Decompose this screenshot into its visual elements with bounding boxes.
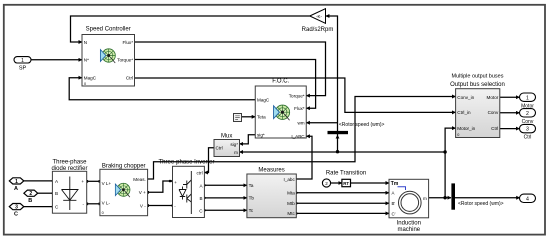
svg-text:Teta: Teta [257,114,266,119]
svg-text:A: A [392,191,395,196]
svg-text:Measures: Measures [258,168,284,174]
svg-text:Rad/s2Rpm: Rad/s2Rpm [302,27,334,33]
svg-text:2: 2 [526,111,529,117]
svg-text:+: + [81,179,84,184]
svg-text:I_ABC: I_ABC [291,134,305,139]
svg-text:Motor: Motor [521,103,534,109]
svg-text:A: A [14,186,18,192]
svg-text:Mtc: Mtc [287,211,295,216]
svg-text:ctrl: ctrl [196,171,202,176]
svg-text:SP: SP [19,66,27,72]
svg-text:Ctrl: Ctrl [126,76,133,81]
svg-text:V L-: V L- [102,201,111,206]
svg-text:B: B [28,198,32,204]
svg-text:Ctrl: Ctrl [524,135,532,141]
svg-text:0: 0 [457,133,459,137]
svg-text:Three-phase: Three-phase [52,160,87,166]
svg-text:sig*: sig* [257,133,265,138]
svg-text:1: 1 [21,58,24,64]
svg-text:N*: N* [84,57,89,62]
svg-text:2: 2 [325,181,328,186]
svg-text:MagC: MagC [257,98,270,103]
svg-text:B: B [200,196,203,201]
svg-text:1: 1 [526,95,529,101]
svg-text:sig*: sig* [230,142,238,147]
svg-text:Conv: Conv [522,119,534,125]
svg-text:F.O.C.: F.O.C. [272,79,289,85]
svg-text:1: 1 [15,179,18,185]
svg-text:Torque*: Torque* [117,57,133,62]
svg-text:Meas.: Meas. [133,177,146,182]
svg-text:V +: V + [139,190,146,195]
svg-text:0: 0 [102,211,104,215]
svg-text:0: 0 [84,82,86,86]
svg-text:V L+: V L+ [102,181,112,186]
svg-text:N: N [84,40,87,45]
svg-text:Tm: Tm [391,181,399,187]
svg-text:Mux: Mux [221,133,232,139]
svg-text:Conv: Conv [488,110,499,115]
svg-text:Motor_in: Motor_in [457,126,475,131]
svg-text:Motor: Motor [487,95,499,100]
svg-text:Rate Transition: Rate Transition [326,171,366,177]
svg-text:Flux*: Flux* [123,40,134,45]
svg-text:B': B' [392,201,396,206]
svg-text:wm: wm [297,120,304,125]
svg-text:Induction: Induction [397,221,421,227]
svg-text:C: C [14,212,18,218]
svg-text:Mta: Mta [287,191,295,196]
svg-text:2: 2 [29,191,32,197]
svg-text:m: m [234,150,238,155]
svg-text:Braking chopper: Braking chopper [102,163,146,169]
svg-text:Tc: Tc [249,208,254,213]
svg-text:Speed Controller: Speed Controller [86,27,131,33]
svg-text:C': C' [392,211,396,216]
svg-text:-K-: -K- [316,14,322,19]
svg-text:Output bus selection: Output bus selection [450,82,505,88]
svg-text:diode rectifier: diode rectifier [51,166,87,172]
svg-text:Tb: Tb [249,196,255,201]
svg-text:Mtb: Mtb [287,201,295,206]
svg-text:I_abc: I_abc [284,177,296,182]
svg-text:Ctrl: Ctrl [491,126,498,131]
svg-text:MagC: MagC [84,76,97,81]
svg-text:V -: V - [140,203,146,208]
svg-text:Ctrl_in: Ctrl_in [457,110,471,115]
svg-text:Ctrl: Ctrl [216,146,223,151]
svg-text:RT: RT [343,181,349,186]
svg-text:Flux*: Flux* [294,106,305,111]
svg-text:Ta: Ta [249,183,254,188]
svg-text:Three-phase Inverter: Three-phase Inverter [158,160,214,166]
svg-text:Torque*: Torque* [289,93,305,98]
svg-text:3: 3 [526,127,529,133]
svg-text:3: 3 [15,205,18,211]
svg-text:B: B [55,191,58,196]
svg-text:Multiple output buses: Multiple output buses [452,74,504,80]
svg-text:+: + [174,180,177,185]
svg-text:m: m [423,196,427,201]
svg-text:Conv_in: Conv_in [457,95,474,100]
svg-text:machine: machine [397,227,420,233]
svg-text:4: 4 [526,196,529,202]
svg-text:<Rotor speed (wm)>: <Rotor speed (wm)> [458,201,504,207]
svg-text:<Rotor speed (wm)>: <Rotor speed (wm)> [339,122,385,128]
